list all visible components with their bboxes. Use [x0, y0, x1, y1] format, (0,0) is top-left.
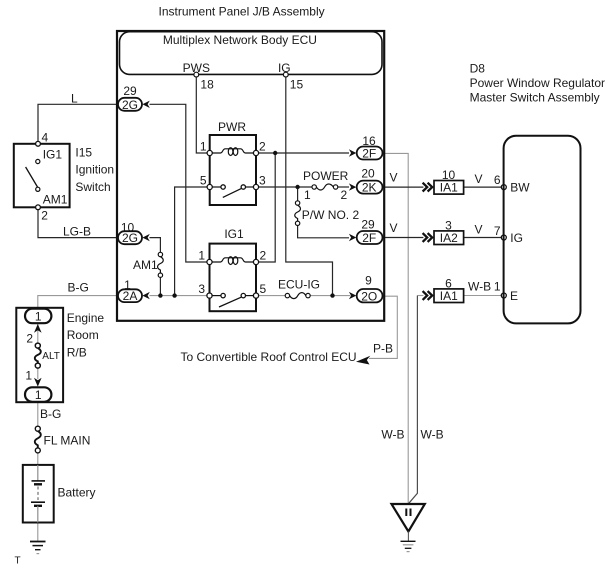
svg-text:IG: IG [510, 231, 523, 245]
svg-text:4: 4 [42, 131, 49, 145]
svg-text:B-G: B-G [68, 281, 89, 295]
wire W-B vertical right (dark) [409, 296, 418, 504]
wire PWS down to PWR pin1 [196, 77, 209, 153]
svg-text:Instrument Panel J/B Assembly: Instrument Panel J/B Assembly [159, 5, 325, 19]
svg-text:2A: 2A [123, 289, 138, 303]
svg-text:5: 5 [260, 282, 267, 296]
wire V connector 2F to IA2 [382, 237, 424, 239]
svg-text:2G: 2G [122, 231, 138, 245]
wire AM1 fuse to junction [159, 277, 161, 295]
wire PWR pin5 left down to junction [175, 187, 210, 296]
svg-text:ECU-IG: ECU-IG [278, 278, 320, 292]
svg-text:1: 1 [35, 388, 42, 402]
pin 5 [253, 293, 258, 298]
contact AM1 [36, 187, 40, 191]
svg-text:LG-B: LG-B [63, 225, 91, 239]
wire IG down, right, down to junction [286, 77, 333, 296]
arrow up [34, 324, 42, 333]
svg-text:1: 1 [200, 140, 207, 154]
connector oval 1 bottom [25, 387, 51, 402]
svg-text:Battery: Battery [58, 486, 96, 500]
svg-text:1: 1 [35, 309, 42, 323]
svg-text:E: E [510, 289, 518, 303]
svg-text:2: 2 [41, 209, 48, 223]
pin 2 [253, 150, 258, 155]
svg-text:Switch: Switch [75, 180, 110, 194]
coil IG1 [211, 258, 255, 262]
pin 5 [207, 184, 212, 189]
svg-text:1: 1 [25, 368, 32, 382]
svg-text:7: 7 [494, 224, 501, 238]
svg-text:IA1: IA1 [440, 289, 458, 303]
svg-text:2: 2 [341, 188, 348, 202]
svg-text:IA1: IA1 [440, 181, 458, 195]
chevron row1 [423, 183, 433, 192]
svg-text:B-G: B-G [40, 407, 61, 421]
wire V IA2 to pin 7 IG [464, 237, 502, 239]
wire POWER fuse to connector 2K [338, 186, 349, 188]
wire FL MAIN to battery [37, 451, 39, 481]
pin 4 [36, 141, 41, 146]
svg-text:R/B: R/B [67, 346, 87, 360]
node junction IG/2O [330, 293, 334, 297]
connector 29/2G [118, 84, 150, 112]
node junction POWER branch [295, 185, 299, 189]
svg-text:POWER: POWER [303, 169, 349, 183]
svg-text:2F: 2F [362, 147, 376, 161]
battery plates [32, 480, 46, 482]
wire 2O right down to P-B arrow [369, 296, 397, 358]
svg-text:2: 2 [260, 249, 267, 263]
wire L from 2G29 to ignition pin4 [38, 104, 118, 143]
connector 10/2G [118, 221, 150, 246]
connector 29/2F [349, 217, 383, 245]
svg-text:W-B: W-B [421, 428, 444, 442]
svg-text:IG1: IG1 [224, 227, 244, 241]
svg-text:Master Switch Assembly: Master Switch Assembly [470, 91, 600, 105]
pin IG [283, 72, 288, 77]
node junction coil ground [273, 151, 277, 155]
wire V IA1 to pin 6 BW [464, 186, 502, 188]
svg-text:D8: D8 [470, 62, 486, 76]
wire PWR pin2 to 2F16 [256, 152, 349, 154]
wire 2A right to IG1 pin3 [150, 295, 210, 297]
svg-text:I15: I15 [75, 146, 92, 160]
svg-text:1: 1 [494, 280, 501, 294]
svg-text:2F: 2F [362, 231, 376, 245]
pin 2 [36, 205, 41, 210]
Multiplex Network Body ECU rounded box [120, 32, 383, 75]
chevron row3 [423, 291, 433, 300]
wire B-G from 2A left to engine room [38, 296, 118, 309]
wire engine room lower oval to FL MAIN [37, 402, 39, 428]
wire IG1 pin2 up to junction [256, 153, 275, 262]
svg-text:2: 2 [259, 140, 266, 154]
fuse ALT [35, 343, 40, 348]
svg-text:1: 1 [198, 249, 205, 263]
ground battery [30, 542, 46, 554]
svg-text:Power Window Regulator: Power Window Regulator [470, 76, 605, 90]
svg-text:6: 6 [494, 173, 501, 187]
wire IA1-6 row stub [417, 295, 423, 297]
svg-text:T: T [15, 556, 21, 567]
svg-text:IG1: IG1 [43, 148, 63, 162]
pin 1 [207, 259, 212, 264]
switch IG1 [211, 295, 221, 297]
svg-text:29: 29 [123, 84, 137, 98]
svg-text:15: 15 [290, 78, 304, 92]
svg-text:ALT: ALT [42, 351, 60, 362]
svg-text:IA2: IA2 [440, 231, 458, 245]
chevron row2 [423, 233, 433, 242]
connector 20/2K [349, 167, 383, 195]
wire junction to P/W NO.2 fuse [297, 187, 299, 201]
svg-text:V: V [390, 171, 398, 185]
wire battery to ground [37, 506, 39, 541]
svg-text:2O: 2O [361, 289, 377, 303]
svg-text:W-B: W-B [468, 280, 491, 294]
svg-text:AM1: AM1 [133, 258, 158, 272]
svg-text:To Convertible Roof Control EC: To Convertible Roof Control ECU [181, 350, 357, 364]
svg-text:29: 29 [361, 217, 375, 231]
svg-text:PWR: PWR [218, 120, 246, 134]
connector oval 1 top [25, 309, 51, 324]
wire ECU-IG fuse to connector 2O [310, 295, 350, 297]
svg-text:2K: 2K [362, 181, 377, 195]
connector 16/2F [349, 134, 383, 161]
svg-text:Engine: Engine [67, 311, 105, 325]
svg-text:AM1: AM1 [43, 193, 68, 207]
pin 3 [207, 293, 212, 298]
svg-text:P/W NO. 2: P/W NO. 2 [302, 208, 360, 222]
wire 2F16 to ground (W-B) [382, 153, 409, 503]
svg-text:V: V [475, 172, 483, 186]
svg-text:W-B: W-B [381, 428, 404, 442]
svg-text:BW: BW [510, 181, 530, 195]
svg-text:Room: Room [67, 328, 99, 342]
arrow P-B [356, 356, 370, 365]
connector 1/2A [118, 278, 150, 303]
svg-text:9: 9 [365, 274, 372, 288]
switch blade [26, 167, 38, 188]
node junction AM1/B-G [158, 293, 162, 297]
svg-text:5: 5 [200, 174, 207, 188]
wire V connector 2K to IA1 [382, 186, 424, 188]
svg-text:1: 1 [304, 188, 311, 202]
svg-text:Multiplex Network Body ECU: Multiplex Network Body ECU [163, 33, 317, 47]
pin PWS [194, 72, 199, 77]
svg-text:Ignition: Ignition [75, 163, 114, 177]
wire ALT fuse to lower oval [37, 367, 39, 379]
svg-text:FL MAIN: FL MAIN [44, 433, 91, 447]
pin 3 [253, 184, 258, 189]
pin 1 [207, 150, 212, 155]
wire 2G29 right to IG1 pin1 [150, 104, 210, 262]
arrow down [34, 378, 42, 387]
node junction PWR5/B-G [172, 293, 176, 297]
pin 2 [253, 259, 258, 264]
wire P/W NO.2 fuse to connector 2F pin 29 [298, 226, 349, 238]
svg-text:3: 3 [259, 174, 266, 188]
switch PWR [211, 186, 221, 188]
wire LG-B ignition pin2 to 2G10 [38, 208, 118, 238]
svg-text:2: 2 [26, 332, 33, 346]
wire 2G10 right to AM1 fuse [150, 238, 161, 253]
svg-text:3: 3 [198, 282, 205, 296]
svg-text:2G: 2G [122, 98, 138, 112]
svg-text:V: V [390, 221, 398, 235]
svg-text:18: 18 [200, 78, 214, 92]
svg-text:20: 20 [361, 167, 375, 181]
contact IG1 [36, 159, 40, 163]
wire PWR pin3 to POWER fuse [256, 186, 312, 188]
connector 9/2O [349, 274, 383, 304]
wire IG1 pin5 to ECU-IG fuse [256, 295, 285, 297]
wire IA1-6 to E pin [464, 295, 502, 297]
wire engine room internals vertical [37, 324, 39, 345]
svg-text:L: L [71, 92, 78, 106]
svg-text:V: V [475, 222, 483, 236]
coil PWR [211, 149, 255, 153]
svg-text:P-B: P-B [373, 342, 393, 356]
